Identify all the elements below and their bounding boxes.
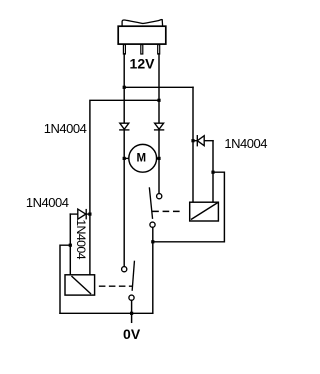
node: top bus / left wire junction [123,86,126,89]
connector J1 (12V input plug) [118,19,166,54]
wire: second bus [90,100,159,214]
diode D4 (left relay flyback, pointing right) [70,209,90,219]
wire: 12V feed to right relay [192,87,194,202]
wire: left bus down to left relay right terminal [89,214,91,275]
switch contact SW1 fixed (upper) [157,194,162,199]
dashed link RLA to SW2 [100,285,132,287]
wire: left relay left terminal to 0V bus [60,245,70,313]
switch SW2 arm [132,261,134,290]
motor M1 [126,144,159,172]
svg-text:1N4004: 1N4004 [224,136,267,151]
wire: SW1 common down to junction [152,227,154,241]
node: D3 cathode junction [191,139,194,142]
node: motor left terminal [123,157,126,160]
svg-text:1N4004: 1N4004 [26,195,69,210]
svg-text:12V: 12V [130,56,156,72]
dashed link SW1 to relay RLB [153,210,182,212]
svg-text:0V: 0V [123,326,141,342]
relay coil RLB (right) [190,202,219,221]
wire: D3 anode down to right relay right terminal [212,141,214,203]
wire: right relay to switch 1 common (right loop) [153,172,225,242]
wire: right pin down to second bus [158,54,160,101]
relay coil RLA (left) [65,275,95,295]
node: D4 cathode junction [88,213,91,216]
switch SW2 common contact [129,295,134,300]
wire: top bus [124,86,193,88]
wire: D4 anode down to left relay left terminal [69,214,71,275]
switch contact SW2 fixed (upper) [122,267,127,272]
svg-text:1N4004: 1N4004 [44,121,87,136]
node: motor right terminal [157,157,160,160]
wire: SW2 common down to 0V bus [131,300,133,313]
diode D1 (left, pointing down) [120,123,129,130]
wire: left pin down to top bus [123,54,125,88]
node: 0V junction [130,312,133,315]
svg-text:1N4004: 1N4004 [74,219,88,260]
wire: right branch vertical (bus to switch 1) [158,100,160,193]
node: right relay right terminal junction [211,171,214,174]
svg-text:M: M [137,153,147,165]
wire: left branch vertical (bus to switch 2) [123,87,125,266]
wire: 0V stub [131,313,133,322]
wire: junction down to 0V bus [152,242,154,313]
diode D2 (right, pointing down) [155,123,164,130]
node: second bus / right wire junction [157,99,160,102]
node: left relay left terminal junction [69,244,72,247]
diode D3 (right relay flyback, pointing left) [193,136,213,146]
node: SW1 / right loop junction [151,240,154,243]
switch SW1 common contact [150,222,155,227]
wire: 0V bus [60,312,153,314]
switch SW1 arm [149,188,152,218]
